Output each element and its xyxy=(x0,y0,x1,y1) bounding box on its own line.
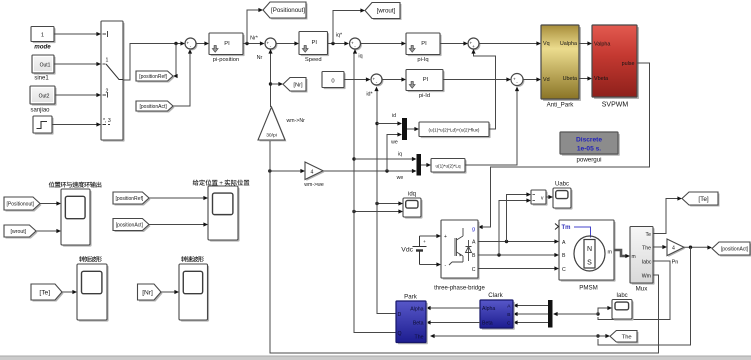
svg-text:Alpha: Alpha xyxy=(482,306,495,312)
svg-text:Clark: Clark xyxy=(488,292,503,299)
wire 0 to id sum xyxy=(344,79,366,81)
wire bridge A to PMSM xyxy=(478,241,555,243)
wire id sum to pi-Id xyxy=(382,79,402,81)
svg-text:The: The xyxy=(642,245,651,251)
subsystem sine1 xyxy=(32,55,56,75)
svg-text:C: C xyxy=(562,267,566,273)
svg-text:sine1: sine1 xyxy=(34,76,49,82)
svg-text:Tm: Tm xyxy=(562,225,571,231)
junction we branch xyxy=(385,169,388,172)
scope speed waveform xyxy=(179,264,209,322)
svg-text:Speed: Speed xyxy=(305,57,322,63)
constant mode value 1 xyxy=(31,27,56,44)
junction theta xyxy=(596,334,599,337)
wire mux2 to fcn2 xyxy=(421,164,427,166)
svg-text:Mux: Mux xyxy=(636,286,649,293)
svg-text:B: B xyxy=(507,312,510,318)
goto tag Te xyxy=(682,192,720,207)
subsystem Park transform xyxy=(396,301,428,344)
wire v to Uabc scope xyxy=(546,196,550,198)
svg-text:[Te]: [Te] xyxy=(698,196,709,203)
wire A tap to voltage measure xyxy=(507,195,528,242)
subsystem Anti_Park inverse park transform xyxy=(541,25,581,101)
wire mode to switch xyxy=(54,33,97,35)
svg-text:[Nr]: [Nr] xyxy=(142,289,153,296)
svg-text:A: A xyxy=(472,240,476,246)
svg-text:g: g xyxy=(472,227,475,233)
wire up to Positionout goto xyxy=(247,10,259,44)
wire pi-position to speed sum xyxy=(243,43,260,45)
svg-text:Vd: Vd xyxy=(543,77,550,83)
svg-text:[positionAct]: [positionAct] xyxy=(721,246,749,252)
svg-text:Vbeta: Vbeta xyxy=(594,76,608,82)
svg-text:Uabc: Uabc xyxy=(555,182,569,188)
svg-text:[wrout]: [wrout] xyxy=(377,8,396,15)
wire pi-Iq to Vq sum xyxy=(440,43,464,45)
wire iq to idq scope xyxy=(354,211,399,213)
wire Wm speed feedback loop xyxy=(270,141,659,353)
junction phase B voltage tap xyxy=(497,253,500,256)
scope Iabc xyxy=(612,300,634,321)
pid controller pi-Id xyxy=(406,70,445,93)
scope position and speed output xyxy=(61,189,92,247)
junction id to mux1 xyxy=(375,122,378,125)
wire mux1 to fcn1 xyxy=(407,128,415,130)
sum speed error xyxy=(265,38,277,50)
wire Nr to scope xyxy=(161,291,175,293)
svg-text:Beta: Beta xyxy=(482,321,493,327)
pid controller Speed xyxy=(299,32,329,57)
svg-text:u(1)*u(2)*Lq: u(1)*u(2)*Lq xyxy=(435,164,460,169)
wire Clark alpha to Park xyxy=(430,307,480,309)
wire positionAct to scope xyxy=(149,224,204,226)
wire id to idq scope xyxy=(377,203,399,205)
svg-text:PMSM: PMSM xyxy=(579,285,598,292)
wire Te to goto xyxy=(653,199,678,234)
svg-text:Ubeta: Ubeta xyxy=(563,76,577,82)
wire iq feedback from Park Q xyxy=(354,52,396,333)
from tag Te xyxy=(31,284,64,302)
svg-text:pi-position: pi-position xyxy=(213,57,239,63)
svg-text:Ualpha: Ualpha xyxy=(560,41,577,47)
svg-text:[Nr]: [Nr] xyxy=(293,82,303,88)
wire sum to pi-position xyxy=(196,43,205,45)
svg-text:we: we xyxy=(391,140,398,146)
wire Ubeta to Vbeta xyxy=(579,78,588,80)
svg-text:4: 4 xyxy=(672,246,675,252)
svg-text:[positionRef]: [positionRef] xyxy=(139,74,167,80)
wire pi-Id to Vd sum xyxy=(443,79,507,81)
gain Pn 4 xyxy=(667,239,685,257)
wire iq sum to pi-Iq xyxy=(361,43,403,45)
svg-text:three-phase-bridge: three-phase-bridge xyxy=(434,286,485,292)
junction electrical angle xyxy=(689,246,692,249)
powergui block xyxy=(560,132,620,156)
svg-text:id*: id* xyxy=(366,92,373,98)
svg-text:+: + xyxy=(423,239,426,244)
svg-text:sanjiao: sanjiao xyxy=(30,108,50,114)
wire fcn1 to Vq sum xyxy=(474,52,496,129)
wire Iabc measurement loop xyxy=(598,261,670,320)
fcn block flux decoupling xyxy=(419,122,491,138)
junction phase A voltage tap xyxy=(505,240,508,243)
wire Ualpha to Valpha xyxy=(579,43,588,45)
svg-text:wm->we: wm->we xyxy=(304,182,324,188)
svg-text:PI: PI xyxy=(312,40,318,46)
svg-text:[positionRef]: [positionRef] xyxy=(115,196,143,202)
svg-text:A: A xyxy=(562,240,566,246)
annotation torque waveform title xyxy=(79,256,85,262)
svg-text:+: + xyxy=(472,44,475,49)
wire pulse to bridge gate xyxy=(482,63,650,227)
svg-text:Wm: Wm xyxy=(642,273,651,279)
annotation given vs actual position title xyxy=(193,180,199,186)
gain wm to Nr 30/pi xyxy=(258,107,286,141)
wire iq branch to mux2 xyxy=(354,158,413,160)
svg-text:pulse: pulse xyxy=(622,61,635,67)
wire sanjiao to switch xyxy=(55,94,97,96)
mux1 id we xyxy=(402,118,407,140)
svg-text:Nr: Nr xyxy=(257,55,263,61)
wire to Nr goto xyxy=(271,83,280,85)
wire we to mux2 xyxy=(323,170,413,172)
wire Te to scope xyxy=(62,291,73,293)
svg-text:[Te]: [Te] xyxy=(39,289,50,296)
svg-text:2: 2 xyxy=(106,89,109,95)
svg-text:PI: PI xyxy=(421,41,427,47)
svg-text:The: The xyxy=(415,335,424,341)
svg-text:Q: Q xyxy=(398,331,402,337)
wire Clark beta to Park xyxy=(430,322,480,324)
svg-text:id: id xyxy=(392,113,396,119)
svg-text:[Positionout]: [Positionout] xyxy=(271,7,305,14)
wire up to wrout goto xyxy=(333,11,361,44)
wire positionRef to scope xyxy=(149,197,204,199)
subsystem SVPWM xyxy=(592,25,639,99)
junction to positionRef goto xyxy=(174,42,177,45)
pid controller pi-position xyxy=(209,33,245,56)
wire Vdc minus to bridge xyxy=(420,264,438,266)
wire positionAct to position sum xyxy=(173,52,190,106)
wire id branch to mux1 xyxy=(377,123,398,125)
svg-text:1: 1 xyxy=(41,33,44,39)
svg-text:Valpha: Valpha xyxy=(594,42,610,48)
svg-text:Nr*: Nr* xyxy=(250,36,259,42)
svg-text:[Positionout]: [Positionout] xyxy=(6,201,34,207)
from tag wrout xyxy=(4,225,38,239)
junction Iabc xyxy=(596,312,599,315)
window bottom scrollbar band xyxy=(0,356,751,360)
wire Iabc to demux xyxy=(557,313,598,315)
goto tag The xyxy=(610,331,639,344)
svg-text:Iabc: Iabc xyxy=(616,293,627,299)
svg-text:D: D xyxy=(398,312,402,318)
subsystem sanjiao xyxy=(30,86,57,106)
junction iq* to wrout xyxy=(331,42,334,45)
svg-text:Discrete: Discrete xyxy=(576,136,602,143)
scope Uabc xyxy=(553,188,573,210)
pid controller pi-Iq xyxy=(406,33,442,56)
wire Pn to positionAct goto xyxy=(684,246,708,248)
wire Vdc plus to bridge xyxy=(420,235,438,237)
wire bridge C to PMSM xyxy=(478,268,555,270)
svg-text:Vq: Vq xyxy=(543,41,550,47)
svg-text:powergui: powergui xyxy=(576,157,601,164)
from tag positionRef xyxy=(113,192,151,206)
svg-text:0: 0 xyxy=(331,78,334,84)
svg-text:B: B xyxy=(472,253,476,259)
scope idq xyxy=(403,198,423,219)
svg-text:N: N xyxy=(587,246,592,253)
svg-text:iq: iq xyxy=(398,152,402,158)
wire wm to we gain xyxy=(270,170,301,172)
from tag positionAct feedback xyxy=(136,101,175,113)
wire theta feedback loop xyxy=(598,247,691,345)
svg-text:Alpha: Alpha xyxy=(410,307,423,313)
scope torque waveform xyxy=(77,264,109,322)
wire demux B to Clark xyxy=(517,313,548,315)
sum Vq decoupling xyxy=(468,38,480,50)
wire id feedback from Park D xyxy=(377,90,396,314)
svg-text:v: v xyxy=(541,196,544,202)
junction iq to scope xyxy=(352,210,355,213)
multiport switch xyxy=(101,21,125,142)
sum position error xyxy=(185,38,197,50)
junction iq to mux2 xyxy=(352,157,355,160)
svg-text:B: B xyxy=(562,253,566,259)
svg-text:[wrout]: [wrout] xyxy=(11,229,27,235)
wire Vd sum to Anti_Park Vd xyxy=(523,79,537,81)
wire down to positionRef goto xyxy=(175,44,177,77)
mux2 iq we xyxy=(417,154,422,176)
svg-text:4: 4 xyxy=(311,169,314,175)
fcn block Lq decoupling xyxy=(431,159,467,174)
wire Nr to speed sum xyxy=(270,52,272,107)
from tag Nr from xyxy=(138,284,163,302)
svg-text:Vdc: Vdc xyxy=(401,246,413,253)
svg-text:we: we xyxy=(397,175,404,181)
wire sine1 to switch xyxy=(54,63,97,65)
goto tag positionRef xyxy=(136,71,175,83)
svg-text:(u(1)*u(2)*Ld)+(u(2)*flux): (u(1)*u(2)*Ld)+(u(2)*flux) xyxy=(429,128,480,133)
svg-text:Out1: Out1 xyxy=(40,62,51,68)
svg-text:[positionAct]: [positionAct] xyxy=(140,104,168,110)
sum id error xyxy=(371,74,383,86)
wire switch output to position sum xyxy=(123,44,181,81)
bus wire m to Mux xyxy=(614,250,626,256)
junction Nr to goto xyxy=(269,82,272,85)
svg-text:iq*: iq* xyxy=(336,33,343,39)
constant 0 id reference xyxy=(322,72,346,90)
svg-text:*, 3: *, 3 xyxy=(103,118,111,124)
svg-text:Anti_Park: Anti_Park xyxy=(547,102,575,109)
svg-text:C: C xyxy=(472,267,476,273)
voltage measurement block xyxy=(531,190,548,206)
svg-text:m: m xyxy=(608,249,613,255)
svg-text:Out2: Out2 xyxy=(39,93,50,99)
three-phase-bridge block xyxy=(441,220,480,280)
wire theta to The goto xyxy=(598,335,606,337)
goto tag positionAct xyxy=(712,242,751,257)
wire theta to Park The xyxy=(434,335,598,337)
wire step to switch xyxy=(52,124,97,126)
wire wrout to scope xyxy=(36,230,57,232)
junction id to scope xyxy=(375,202,378,205)
svg-text:Park: Park xyxy=(404,294,418,301)
svg-text:C: C xyxy=(507,321,511,327)
from tag Positionout xyxy=(4,197,42,212)
scope position compare xyxy=(208,186,240,242)
svg-text:pi-Iq: pi-Iq xyxy=(417,57,428,63)
annotation position loop output title xyxy=(49,182,55,188)
svg-text:mode: mode xyxy=(34,44,51,51)
svg-text:Pn: Pn xyxy=(672,260,679,266)
gain wm to we 4 xyxy=(305,162,324,181)
svg-text:wm->Nr: wm->Nr xyxy=(287,118,306,124)
wire fcn2 to Vd sum xyxy=(465,90,517,166)
svg-text:S: S xyxy=(587,260,592,267)
svg-text:iq: iq xyxy=(358,54,362,60)
dc voltage source Vdc xyxy=(401,236,426,265)
svg-text:30/pi: 30/pi xyxy=(266,133,277,139)
svg-text:The: The xyxy=(622,334,632,340)
wire B tap to voltage measure xyxy=(499,201,527,256)
annotation speed waveform title xyxy=(181,256,187,262)
bus selector Mux xyxy=(630,227,655,285)
svg-text:1: 1 xyxy=(106,58,109,64)
svg-text:Beta: Beta xyxy=(413,321,424,327)
step block xyxy=(33,116,54,135)
svg-text:PI: PI xyxy=(423,77,429,83)
goto tag wrout xyxy=(365,3,402,21)
junction Nr* to Positionout xyxy=(245,42,248,45)
svg-text:SVPWM: SVPWM xyxy=(602,102,629,109)
wire Speed to iq sum xyxy=(328,43,346,45)
wire Vq sum to Anti_Park Vq xyxy=(479,43,537,45)
svg-text:PI: PI xyxy=(224,41,230,47)
svg-text:pi-Id: pi-Id xyxy=(419,93,430,99)
wire demux A to Clark xyxy=(517,305,548,307)
wire Positionout to scope xyxy=(40,203,57,205)
junction wm line to gain xyxy=(268,169,271,172)
svg-text:idq: idq xyxy=(408,192,416,198)
subsystem Clark transform xyxy=(480,300,515,330)
from tag positionAct xyxy=(113,219,151,233)
wire Iabc to scope xyxy=(598,308,608,314)
wire we branch to mux1 xyxy=(387,135,398,172)
PMSM motor block xyxy=(559,220,616,282)
goto tag Nr xyxy=(283,78,308,93)
wire demux C to Clark xyxy=(517,322,548,324)
wire The to Pn gain xyxy=(653,246,663,248)
svg-text:1e-05 s.: 1e-05 s. xyxy=(577,145,601,152)
sum Vd decoupling xyxy=(511,74,524,87)
svg-text:+: + xyxy=(444,234,447,240)
sum iq error xyxy=(350,38,362,50)
wire bridge B to PMSM xyxy=(478,254,555,256)
wire speed sum to Speed PI xyxy=(276,43,295,45)
goto tag Positionout xyxy=(263,2,308,20)
svg-text:Iabc: Iabc xyxy=(642,259,652,265)
demux Iabc to phases xyxy=(548,300,553,328)
svg-text:[positionAct]: [positionAct] xyxy=(116,222,144,228)
svg-text:Te: Te xyxy=(646,232,652,238)
svg-text:m: m xyxy=(632,254,636,260)
